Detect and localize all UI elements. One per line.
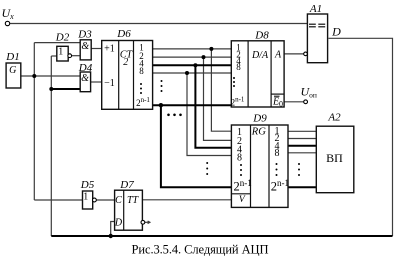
svg-text:TT: TT bbox=[127, 195, 140, 206]
svg-text:A2: A2 bbox=[327, 112, 341, 124]
svg-text:D2: D2 bbox=[55, 32, 70, 44]
svg-text:A1: A1 bbox=[309, 3, 322, 15]
svg-text:G: G bbox=[9, 65, 16, 76]
svg-text:−1: −1 bbox=[104, 78, 115, 89]
svg-text:D: D bbox=[331, 25, 341, 39]
svg-text:Ux: Ux bbox=[2, 6, 15, 21]
svg-text:D7: D7 bbox=[119, 179, 134, 191]
svg-text:&: & bbox=[81, 41, 89, 52]
svg-text:8: 8 bbox=[275, 148, 280, 159]
svg-text:+1: +1 bbox=[104, 44, 115, 55]
svg-text:D: D bbox=[114, 218, 123, 229]
svg-text:2: 2 bbox=[123, 57, 128, 68]
svg-text:D9: D9 bbox=[252, 113, 267, 125]
svg-text:D3: D3 bbox=[77, 29, 92, 41]
svg-text:D1: D1 bbox=[5, 51, 19, 63]
svg-text:1: 1 bbox=[83, 192, 88, 203]
svg-text:ВП: ВП bbox=[326, 151, 343, 165]
svg-text:RG: RG bbox=[251, 127, 266, 138]
svg-text:8: 8 bbox=[237, 153, 242, 164]
svg-text:D6: D6 bbox=[116, 28, 131, 40]
svg-text:C: C bbox=[115, 195, 122, 206]
svg-text:1: 1 bbox=[58, 47, 63, 58]
svg-text:8: 8 bbox=[236, 62, 241, 72]
svg-text:Рис.3.5.4. Следящий АЦП: Рис.3.5.4. Следящий АЦП bbox=[132, 243, 269, 257]
svg-text:&: & bbox=[81, 73, 89, 84]
svg-text:D8: D8 bbox=[254, 30, 269, 42]
svg-text:A: A bbox=[274, 49, 282, 60]
svg-text:8: 8 bbox=[139, 66, 144, 76]
svg-text:D/A: D/A bbox=[251, 50, 269, 61]
svg-text:D5: D5 bbox=[80, 179, 95, 191]
svg-text:Uоп: Uоп bbox=[301, 85, 317, 100]
